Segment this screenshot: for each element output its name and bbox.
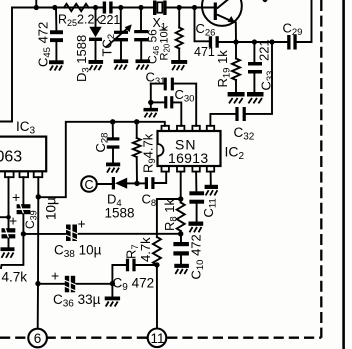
wire: R7 node down to terminal 11 (156, 265, 158, 329)
svg-text:+: + (9, 213, 17, 229)
ground (TC2) (114, 59, 129, 69)
svg-text:063: 063 (0, 149, 22, 166)
ground (C10) (174, 264, 189, 274)
ground (C33) (247, 92, 264, 103)
capacitor C28 (93, 119, 119, 162)
svg-text:D3 1588: D3 1588 (74, 35, 92, 82)
wire: solid page-edge line right (342, 0, 345, 349)
ground (R20) (171, 60, 187, 70)
svg-text:1588: 1588 (105, 206, 135, 221)
svg-text:R94.7k: R94.7k (141, 133, 159, 173)
wire: top bus from left corner to transistor base (0, 8, 214, 122)
svg-text:4.7k: 4.7k (2, 270, 28, 285)
node: junction with stub up off-frame (34, 0, 39, 10)
ground (C9) (105, 297, 120, 307)
ground (C45) (49, 60, 64, 70)
capacitor C39 10u (polarized) (12, 177, 59, 234)
node: terminal 11 (circled) (148, 329, 167, 348)
wire: emitter row with junction nodes (233, 39, 287, 44)
svg-text:C45 472: C45 472 (36, 22, 54, 67)
wire: bypass bracket from R8 top to C38 bus (157, 199, 181, 234)
pin stubs IC3 bottom (5, 171, 42, 177)
svg-text:C9 472: C9 472 (113, 276, 155, 294)
IC U2 SN16913 (IC2) (158, 131, 245, 166)
ground (R19) (228, 92, 245, 103)
capacitor C36 33u (polarized, series) (51, 268, 101, 310)
capacitor C33 221 (248, 39, 276, 92)
ground (C30/C31) (144, 108, 159, 118)
capacitor C10 472 (173, 234, 206, 280)
resistor R25 2.2k (58, 4, 101, 28)
svg-text:6: 6 (34, 331, 42, 346)
capacitor C11 (189, 172, 218, 222)
diode D4 1588 (105, 177, 140, 221)
transistor Q1 (202, 0, 242, 42)
capacitor C8 (137, 172, 166, 209)
ground (D3) (89, 60, 104, 70)
ground (C28) (106, 163, 120, 173)
svg-text:16913: 16913 (168, 150, 208, 166)
svg-text:+: + (12, 189, 20, 205)
wire: IC3 pin1 down with tap to left edge (0, 177, 11, 228)
capacitor C9 472 (110, 259, 157, 297)
svg-text:R8 1k: R8 1k (162, 198, 180, 231)
ground (IC2 pin4) (205, 185, 218, 196)
IC U3 (IC3, partially cut at left edge) (0, 119, 46, 171)
svg-text:C10 472: C10 472 (189, 234, 207, 279)
capacitor C31 (146, 70, 197, 126)
wire: tiny stub at top middle (264, 0, 267, 1)
capacitor C45 472 (36, 5, 64, 67)
svg-text:C36 33µ: C36 33µ (53, 292, 101, 310)
wire: C36 row (38, 283, 112, 285)
wire: C38 bus (IC3 pin2 node to R8 bottom node) (23, 233, 180, 235)
wire: dashed frame bottom horizontal (0, 337, 321, 339)
wire: pin2 line down then left off-frame (to 4.7k) (1, 234, 27, 285)
wire: C30/C31 common leg (148, 84, 153, 108)
svg-text:R2010k: R2010k (159, 25, 172, 60)
resistor R9 4.7k (133, 119, 158, 183)
resistor R7 4.7k (124, 234, 161, 268)
node: terminal 6 (circled) (28, 329, 47, 348)
node: junction pin2 line / C38 wire (21, 231, 26, 236)
capacitor C32 (210, 42, 272, 143)
resistor R20 10k (159, 5, 183, 61)
pin stubs IC2 top (162, 126, 215, 131)
wire: pin3 node right, up to C28 bus (38, 122, 165, 197)
pin stubs IC2 bottom (162, 166, 215, 172)
trimmer capacitor TC2 (100, 5, 132, 60)
svg-text:11: 11 (151, 331, 165, 346)
svg-text:+: + (51, 268, 59, 284)
svg-text:471: 471 (194, 45, 215, 59)
capacitor C29 (283, 0, 312, 50)
svg-text:C38 10µ: C38 10µ (54, 243, 102, 261)
connector node C (circled) (81, 176, 112, 192)
svg-text:4.7k: 4.7k (138, 237, 153, 262)
capacitor C38 10u (polarized, series) (54, 216, 102, 261)
svg-text:221: 221 (100, 13, 121, 27)
crystal X1 (153, 1, 167, 33)
resistor R8 1k (162, 172, 185, 237)
svg-text:C: C (85, 178, 94, 192)
svg-text:221: 221 (256, 39, 271, 61)
svg-text:+: + (78, 216, 86, 232)
svg-text:10µ: 10µ (44, 197, 59, 220)
ground (C46) (136, 59, 151, 69)
capacitor C30 (151, 87, 195, 126)
diode D3 1588 (74, 5, 102, 82)
capacitor C26 471 (192, 5, 236, 59)
wire: dashed frame right vertical (320, 0, 322, 338)
capacitor C46 56 (134, 5, 161, 64)
ground (C11) (189, 222, 204, 233)
resistor R19 1k (215, 42, 240, 92)
capacitor (polarized, at left edge) (2, 213, 18, 248)
capacitor 221 (series on top bus) (100, 2, 121, 28)
wire: IC3 pin3 column down to terminal 6 (35, 177, 41, 329)
wire: IC2 pin4 bottom to ground (210, 172, 212, 185)
ground (left edge cap) (1, 247, 15, 257)
